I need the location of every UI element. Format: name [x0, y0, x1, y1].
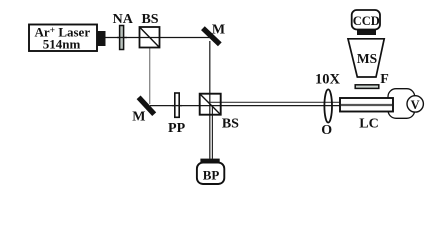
- svg-text:M: M: [212, 23, 225, 38]
- detector BP mount (black bar): [200, 159, 219, 163]
- objective lens O: [324, 89, 332, 122]
- svg-text:F: F: [380, 72, 389, 87]
- laser source box Ar+ Laser 514nm: [29, 25, 97, 52]
- wire: beam over NA: [117, 37, 127, 39]
- CCD camera box: [352, 10, 380, 30]
- svg-text:514nm: 514nm: [43, 37, 81, 52]
- CCD camera mount (black bar): [357, 30, 376, 36]
- liquid crystal cell LC: [340, 98, 393, 112]
- svg-text:10X: 10X: [315, 71, 341, 87]
- mirror M (bottom left): [139, 97, 155, 114]
- phase plate PP: [175, 93, 179, 117]
- wire: gray beam from BS1 down to mirror M (bottom): [149, 48, 151, 105]
- voltage source box with V meter: [388, 89, 423, 119]
- wire: upper parallel beam from BS2 to LC: [209, 101, 342, 103]
- svg-text:M: M: [132, 110, 145, 125]
- wire: beam from mirror M (top) down through BS2 to BP: [209, 41, 211, 159]
- svg-text:LC: LC: [359, 117, 378, 132]
- svg-text:V: V: [411, 98, 420, 112]
- svg-text:BS: BS: [222, 116, 239, 131]
- beam splitter BS2: [200, 94, 221, 115]
- svg-text:NA: NA: [113, 12, 134, 27]
- svg-text:O: O: [321, 123, 332, 138]
- wire: second parallel beam from BS2 down to BP: [211, 106, 213, 159]
- wire: lower beam from mirror M (bottom) through PP and BS2 to LC: [150, 105, 341, 107]
- svg-text:PP: PP: [168, 121, 186, 136]
- microscope MS (trapezoid): [348, 39, 384, 77]
- laser aperture (black block): [97, 31, 106, 46]
- beam splitter BS1: [140, 27, 160, 48]
- filter F: [355, 85, 379, 89]
- mirror M (top right): [203, 28, 220, 44]
- detector BP box: [197, 163, 224, 184]
- svg-text:MS: MS: [357, 51, 377, 66]
- attenuator NA plate: [120, 26, 124, 50]
- svg-text:CCD: CCD: [353, 14, 380, 28]
- svg-text:BP: BP: [203, 168, 220, 183]
- wire: beam over PP: [172, 105, 182, 107]
- wire: beam from laser to mirror M (top row): [105, 37, 213, 39]
- svg-text:BS: BS: [141, 12, 158, 27]
